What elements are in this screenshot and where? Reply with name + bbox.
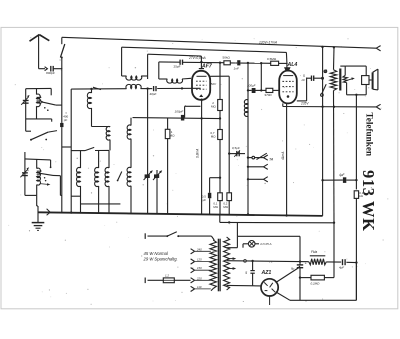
svg-text:4 N 05 A: 4 N 05 A: [260, 242, 272, 246]
resistor 2M&#937;: [211, 100, 222, 111]
switch mains: [166, 232, 214, 240]
wire H5: [133, 106, 220, 118]
mains plug upper: [145, 233, 166, 239]
jack TA upper: [247, 153, 268, 160]
coil L1 taps: [37, 96, 42, 104]
svg-text:29 W Sparschaltg.: 29 W Sparschaltg.: [143, 257, 178, 262]
variable capacitor C1: [21, 89, 29, 132]
label 27V 0,8mA: [188, 56, 206, 60]
resistor 0,1M&#937;: [213, 193, 222, 209]
capacitor 100pF grid: [247, 83, 263, 93]
switch S2b: [117, 172, 122, 182]
capacitor 40pF: [150, 86, 157, 96]
svg-text:150: 150: [197, 266, 202, 270]
svg-text:100pF: 100pF: [175, 110, 185, 114]
svg-text:pF: pF: [64, 118, 68, 122]
resistor 5ohm: [354, 191, 364, 199]
speaker LS: [373, 69, 378, 90]
wire anode choke vertical: [333, 47, 335, 224]
trimmer C3: [144, 89, 153, 214]
svg-text:TA: TA: [269, 158, 274, 162]
wire antenna switch vertical: [61, 37, 63, 68]
resistor 0,2M&#937; bleeder: [299, 223, 334, 286]
transformer taps: [191, 247, 211, 291]
resistor 0,7M&#937;: [210, 130, 222, 140]
coil L1: [26, 88, 52, 121]
coil L7: [95, 150, 99, 212]
wire top line H1: [62, 37, 381, 51]
label AL4: [287, 62, 298, 68]
wire AZ1 to chassis line: [276, 263, 357, 301]
tube AZ1 internals: [264, 282, 275, 305]
svg-text:AZ1: AZ1: [261, 270, 272, 276]
wire osc link: [62, 147, 85, 151]
svg-text:+: +: [305, 261, 307, 265]
svg-text:MΩ: MΩ: [211, 134, 216, 138]
wire H2b grid line: [148, 54, 202, 79]
svg-text:110: 110: [197, 285, 202, 289]
capacitor 0,5uF cathode: [202, 193, 211, 214]
label TA: [269, 158, 274, 162]
coil L2 taps: [37, 170, 51, 185]
transformer T2 primary: [210, 240, 216, 291]
resistor 0,2M&#937;: [223, 193, 231, 209]
capacitor 1nF: [234, 60, 262, 70]
variable capacitor C2: [20, 152, 29, 195]
svg-text:41mA: 41mA: [281, 152, 285, 160]
label AF7: [201, 64, 213, 70]
label 52V: [211, 82, 217, 86]
coil L11 padder: [127, 118, 131, 213]
capacitor 4uF upper: [323, 173, 357, 183]
lamp dial: [243, 241, 259, 248]
svg-text:4μF: 4μF: [339, 266, 344, 270]
wire AL4 pins to 235V line: [282, 103, 284, 106]
wire AL4 anode loop: [297, 78, 307, 101]
wire cathode line B: [227, 260, 309, 263]
capacitor 25pF: [174, 60, 183, 69]
transformer T1 secondary: [343, 66, 347, 95]
wire osc left vertical: [70, 89, 72, 214]
switch tone: [321, 70, 327, 97]
resistor 0,5M&#937;: [261, 57, 287, 65]
node grid AF7: [199, 61, 204, 69]
svg-text:125: 125: [197, 258, 202, 262]
wire H4: [71, 87, 200, 90]
wire AL4 grid drop: [285, 52, 288, 67]
bus connector arrow: [47, 209, 51, 215]
svg-text:100μF: 100μF: [247, 83, 256, 87]
wire screen jog: [210, 177, 222, 193]
fuse F1: [163, 273, 190, 282]
capacitor 8uF reservoir: [291, 236, 307, 300]
label 0,8mA: [196, 149, 200, 158]
capacitor 5nF tone: [302, 74, 324, 82]
svg-text:1,2: 1,2: [165, 273, 169, 277]
label Telefunken: [365, 113, 375, 157]
switch S2a: [85, 147, 109, 150]
svg-text:235V: 235V: [300, 102, 309, 106]
svg-text:800pF: 800pF: [46, 71, 56, 75]
label 913 WK: [359, 170, 378, 232]
coil L12 HF choke: [244, 100, 248, 117]
wire AL4 cathode 41mA: [285, 103, 287, 216]
tube AF7: [192, 71, 210, 100]
svg-text:MΩ: MΩ: [211, 104, 216, 108]
capacitor 0,5uF AF: [229, 146, 245, 157]
svg-text:40pF: 40pF: [150, 92, 157, 96]
wire secondary top tap: [227, 236, 243, 247]
label power modes: [143, 251, 178, 261]
capacitor 100pF: [175, 110, 185, 121]
speaker frame bottom: [347, 85, 367, 97]
capacitor 400pF: [60, 68, 68, 212]
transformer T1 primary: [330, 70, 336, 91]
wire heater return: [220, 214, 334, 223]
jack arrow and capacitor 800pF on antenna lead: [39, 66, 62, 75]
svg-text:nF: nF: [302, 78, 306, 82]
switch S-wave band: [26, 131, 57, 141]
wire H3 oscillator line: [159, 62, 223, 79]
mains plug lower: [145, 278, 163, 284]
wire anode vertical 0,8mA: [200, 99, 202, 214]
tube AL4 top cap: [284, 67, 291, 71]
svg-text:μF: μF: [203, 198, 207, 202]
svg-text:240: 240: [196, 247, 202, 251]
resistor 970ohm: [261, 88, 279, 97]
coil L8: [105, 150, 109, 212]
svg-text:0,2MΩ: 0,2MΩ: [311, 281, 321, 285]
svg-text:27V≈0,8mA: 27V≈0,8mA: [188, 56, 206, 60]
coil L10: [106, 126, 110, 150]
svg-text:913 WK: 913 WK: [359, 170, 378, 232]
transformer T2 secondary: [224, 237, 237, 290]
wire field supply vertical: [355, 95, 357, 300]
wire HT vertical: [321, 47, 323, 216]
label 41mA: [281, 152, 285, 160]
svg-text:120V≈17mA: 120V≈17mA: [259, 40, 278, 44]
tube AL4: [279, 71, 297, 104]
wire 235V line: [283, 104, 381, 109]
antenna: [30, 35, 50, 69]
coil L5 wavetrap: [126, 84, 141, 88]
switch S1b: [39, 172, 62, 195]
svg-text:AL4: AL4: [287, 62, 298, 68]
wire osc bottom link: [71, 196, 120, 204]
wire lamp drop: [236, 223, 238, 237]
coil L9: [87, 89, 110, 127]
transformer T2 core: [218, 239, 220, 292]
wire AVC vertical: [210, 76, 230, 214]
ground: [32, 195, 45, 230]
tube AZ1: [261, 279, 278, 296]
coil L4 grid coil: [159, 78, 191, 83]
label AZ1: [261, 270, 272, 276]
capacitor heater: [245, 261, 255, 285]
transformer T1 core: [339, 69, 341, 91]
moving coil arrow: [346, 77, 355, 80]
svg-text:0,8mA: 0,8mA: [196, 149, 200, 158]
label lamp: [260, 242, 272, 246]
wire heater top line: [237, 235, 300, 237]
svg-text:220: 220: [196, 276, 202, 280]
label 120V 17mA: [259, 40, 278, 44]
svg-text:AF7: AF7: [201, 64, 213, 70]
svg-text:0,5μF: 0,5μF: [232, 146, 240, 150]
svg-text:Telefunken: Telefunken: [365, 113, 375, 157]
capacitor 4uF smoothing: [326, 259, 356, 269]
wire grid-leak vertical: [247, 63, 249, 216]
jack TA lower: [247, 177, 268, 182]
wire AZ1 anode to reservoir: [276, 266, 300, 283]
svg-text:25pF: 25pF: [174, 64, 181, 68]
wire H2: [122, 47, 287, 76]
wire filament line: [227, 284, 262, 287]
svg-text:45 W Normal: 45 W Normal: [144, 251, 170, 256]
jack TA middle: [247, 164, 268, 169]
svg-text:MΩ: MΩ: [170, 134, 175, 138]
tube AL4 internals: [282, 76, 293, 98]
trimmer C4: [153, 170, 162, 213]
svg-text:970Ω: 970Ω: [265, 93, 273, 97]
field coil Fkla: [309, 250, 327, 265]
wire chassis bus: [38, 212, 323, 216]
switch S1a: [41, 101, 62, 111]
node 1nF junction: [247, 62, 263, 91]
resistor 50k&#937;: [223, 56, 236, 65]
svg-text:50kΩ: 50kΩ: [223, 56, 231, 60]
wire screen chain vertical: [219, 62, 221, 215]
switch S-band2: [93, 87, 101, 89]
speaker voice coil: [362, 76, 372, 85]
switch S-ant: [60, 44, 64, 59]
resistor 1M&#937;: [165, 118, 175, 214]
svg-text:Fkla: Fkla: [311, 250, 317, 254]
svg-text:8μ: 8μ: [291, 266, 295, 270]
svg-text:5: 5: [245, 271, 247, 275]
label 235V: [300, 102, 309, 106]
svg-text:52V: 52V: [211, 82, 217, 86]
tube AF7 internals: [196, 76, 207, 97]
svg-text:0,5MΩ: 0,5MΩ: [267, 57, 277, 61]
speaker frame top: [340, 66, 366, 76]
coil L2: [25, 159, 52, 196]
coil L6: [77, 151, 81, 213]
coil L3 antenna coupling: [122, 76, 148, 80]
